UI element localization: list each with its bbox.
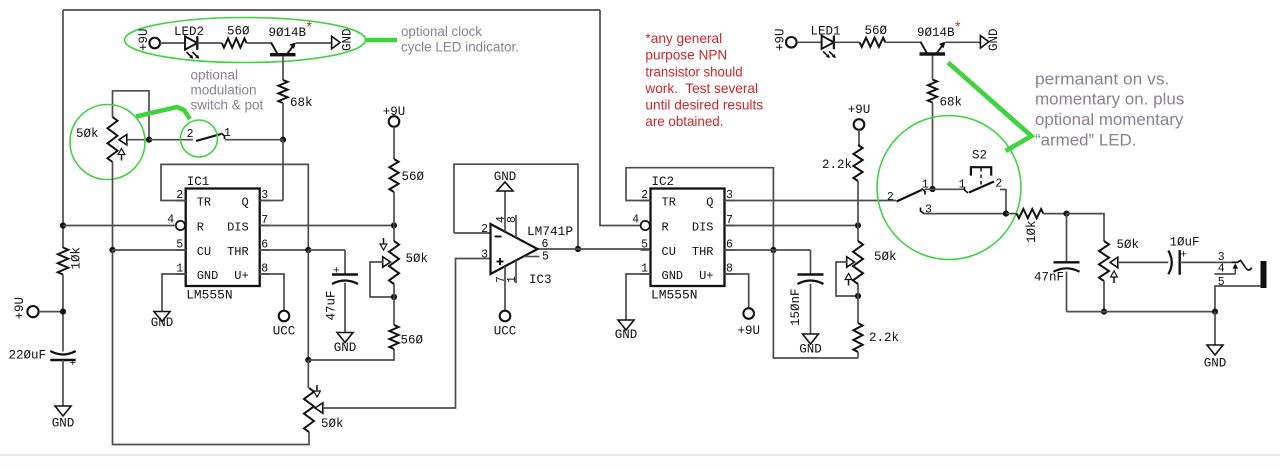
wire IC2 V+	[725, 274, 749, 308]
wire pot to 560 bottom	[393, 284, 395, 325]
wire bottom loop	[113, 250, 310, 445]
terminal +9v IC2	[737, 308, 760, 338]
svg-text:1: 1	[959, 179, 966, 192]
wire +9V tap	[39, 311, 63, 313]
svg-text:modulation: modulation	[191, 83, 257, 98]
svg-text:+: +	[333, 266, 340, 278]
wire IC1 TR loop	[161, 164, 308, 250]
svg-text:56Ø: 56Ø	[865, 24, 888, 38]
svg-text:Q: Q	[706, 196, 713, 210]
wire IC3 feedback box	[454, 164, 578, 249]
svg-text:U+: U+	[699, 269, 713, 283]
LED D1 LED1	[811, 25, 841, 59]
svg-text:+9U: +9U	[737, 324, 760, 338]
wire pot bottom	[1103, 281, 1105, 312]
svg-text:DIS: DIS	[692, 221, 714, 235]
svg-text:*any general: *any general	[645, 30, 722, 46]
LED D2 LED2	[174, 25, 204, 59]
svg-text:THR: THR	[227, 245, 249, 259]
svg-text:5: 5	[641, 239, 648, 252]
ground IC1	[151, 312, 174, 331]
wire node to pot top	[1067, 214, 1105, 241]
wire Q line to switch2	[895, 200, 898, 202]
svg-text:2.2k: 2.2k	[869, 331, 899, 345]
wire IC1 THR line	[260, 249, 309, 251]
jack J1 output	[1215, 251, 1267, 289]
wire DIS junction to pot	[393, 226, 395, 242]
wire 220uF to gnd	[62, 360, 64, 406]
transistor Q1 9014B	[917, 26, 955, 56]
junction +9V tap	[60, 309, 66, 315]
svg-text:+9U: +9U	[848, 103, 871, 117]
arrow pot output	[1111, 271, 1118, 283]
junction IC3 output	[575, 246, 581, 252]
svg-text:47nF: 47nF	[1034, 271, 1064, 285]
switch pin 3 contact	[921, 204, 933, 217]
wire LED2 to R560	[197, 42, 222, 44]
svg-text:9Ø14B: 9Ø14B	[917, 26, 955, 40]
svg-text:2: 2	[887, 191, 894, 204]
wire IC1 DIS line	[260, 225, 394, 227]
wire left rail mid	[62, 226, 64, 249]
arrow pot middle	[380, 238, 387, 250]
switch S1b momentary	[887, 179, 929, 205]
green circle pot annotation	[70, 105, 145, 180]
wire feedback wiper to IC3	[323, 259, 490, 409]
resistor R 10k left rail	[58, 247, 84, 275]
capacitor C 220uF	[8, 349, 76, 371]
wire middle pot wiper box	[370, 262, 394, 297]
svg-text:DIS: DIS	[227, 221, 249, 235]
ground 150nF	[799, 334, 822, 357]
terminal VCC IC1	[273, 311, 296, 339]
ground left rail	[52, 406, 75, 431]
svg-text:UCC: UCC	[273, 325, 296, 339]
svg-text:optional momentary: optional momentary	[1035, 111, 1184, 129]
svg-text:GND: GND	[52, 417, 75, 431]
red asterisk Q2	[307, 18, 313, 34]
green circle armed annotation	[877, 116, 1021, 260]
svg-text:GND: GND	[615, 328, 638, 342]
wire IC1 V+	[260, 274, 284, 311]
svg-text:68k: 68k	[940, 96, 963, 110]
wire IC3 output to IC2 CV	[538, 248, 651, 250]
wire pot bottom to CV	[112, 162, 114, 250]
svg-text:U+: U+	[234, 269, 248, 283]
wire to output gnd	[1214, 312, 1216, 345]
resistor 560 middle	[389, 159, 424, 192]
junction DIS 2.2k node	[855, 222, 861, 228]
wire IC3 pin2	[454, 232, 490, 234]
svg-text:1: 1	[506, 276, 519, 283]
green callout switch and pot	[136, 107, 190, 119]
svg-text:GND: GND	[494, 170, 517, 184]
ground IC2	[615, 320, 638, 342]
wire wiper to 10uF	[1118, 261, 1168, 263]
wire IC1 GND	[162, 274, 186, 312]
junction 560 bottom node	[305, 357, 311, 363]
terminal +9V middle	[383, 105, 406, 127]
svg-text:1Øk: 1Øk	[70, 247, 84, 270]
annotation optional clock cycle LED indicator	[401, 24, 519, 55]
svg-text:22ØuF: 22ØuF	[8, 349, 46, 363]
svg-text:GND: GND	[197, 269, 219, 283]
wire 47uF to gnd	[344, 283, 346, 333]
wire right pot wiper box	[836, 262, 858, 296]
resistor 560 LED2 chain	[222, 25, 250, 48]
svg-text:are obtained.: are obtained.	[645, 113, 723, 129]
resistor 2.2k lower	[853, 323, 899, 352]
svg-text:+9U: +9U	[383, 105, 406, 119]
wire 150nF to gnd	[810, 284, 812, 334]
terminal +9V LED2 chain	[137, 28, 160, 51]
svg-text:GND: GND	[987, 28, 1001, 51]
wire IC2 Q line	[725, 200, 896, 202]
svg-text:IC3: IC3	[529, 273, 552, 287]
wire THR to 150nF	[810, 250, 812, 275]
svg-text:2: 2	[481, 223, 488, 236]
wire 47nF to bottom	[1066, 272, 1068, 312]
wire LED1 to R560	[834, 41, 860, 43]
svg-text:*: *	[307, 18, 313, 34]
potentiometer 50k middle	[383, 241, 428, 284]
junction output pot bottom	[1101, 309, 1107, 315]
junction wiper node	[146, 137, 152, 143]
ground 47uF	[334, 333, 357, 356]
wire 68k to switch	[932, 103, 934, 190]
red asterisk Q1	[955, 18, 961, 34]
wire R560 to Q1	[885, 41, 920, 43]
svg-text:*: *	[955, 18, 961, 34]
resistor 68k right	[928, 80, 962, 110]
svg-text:switch & pot: switch & pot	[191, 98, 264, 113]
svg-text:5: 5	[1218, 276, 1225, 289]
wire to feedback pot	[307, 360, 309, 388]
wire 2.2k lower to loop	[857, 352, 859, 358]
svg-text:3: 3	[261, 189, 268, 202]
svg-text:5Øk: 5Øk	[1117, 238, 1140, 252]
arrow pot feedback	[314, 385, 321, 397]
svg-text:optional clock: optional clock	[401, 24, 482, 39]
wire switch junction to S2	[925, 188, 965, 190]
green callout clock LED	[366, 38, 398, 43]
wire switch to 68k junction	[225, 139, 283, 141]
wire Q2 emitter to gnd	[296, 42, 332, 44]
svg-text:CU: CU	[662, 245, 676, 259]
svg-text:9Ø14B: 9Ø14B	[269, 26, 307, 40]
svg-text:3: 3	[925, 204, 932, 217]
wire Q1 base to 68k	[932, 56, 934, 80]
svg-text:work. Test several: work. Test several	[644, 80, 758, 96]
svg-text:+9U: +9U	[773, 28, 787, 51]
wire S2 pin2 down	[1000, 190, 1006, 214]
svg-text:THR: THR	[692, 245, 714, 259]
svg-text:CU: CU	[197, 245, 211, 259]
svg-text:LM741P: LM741P	[527, 225, 573, 239]
svg-text:5Øk: 5Øk	[874, 250, 897, 264]
green callout armed LED	[948, 63, 1031, 152]
wire top rail to IC2 R	[600, 10, 641, 226]
junction switch armed node	[929, 186, 935, 192]
wire S2 node to 10k	[1006, 213, 1017, 215]
svg-text:momentary on. plus: momentary on. plus	[1035, 91, 1184, 109]
ground output	[1204, 345, 1227, 371]
potentiometer 50k modulation	[76, 117, 127, 162]
junction switch node	[280, 137, 286, 143]
wire IC2 TR loop down	[773, 250, 858, 358]
svg-text:until desired results: until desired results	[645, 97, 763, 113]
wire top rail	[63, 9, 600, 11]
svg-text:R: R	[197, 221, 204, 235]
annotation permanant on vs momentary	[1035, 71, 1184, 150]
svg-text:TR: TR	[197, 196, 211, 210]
annotation red NPN note	[644, 30, 763, 129]
svg-text:optional: optional	[191, 68, 239, 83]
svg-text:GND: GND	[662, 269, 684, 283]
wire 2.2k to DIS junction	[857, 181, 859, 226]
wire wiper to junction	[127, 139, 149, 141]
svg-text:4: 4	[632, 214, 639, 227]
IC U1 LM555N IC1	[167, 175, 269, 303]
svg-text:2.2k: 2.2k	[822, 158, 852, 172]
green ellipse clock LED indicator	[125, 18, 366, 63]
junction right pot bottom	[855, 293, 861, 299]
svg-text:8: 8	[506, 216, 519, 223]
green circle switch annotation	[181, 120, 218, 157]
svg-text:+: +	[1180, 250, 1187, 262]
svg-text:Q: Q	[241, 196, 248, 210]
svg-text:1ØuF: 1ØuF	[1170, 236, 1200, 250]
svg-text:6: 6	[542, 238, 549, 251]
wire junction to Q pin	[260, 140, 284, 201]
capacitor C 150nF	[789, 275, 824, 327]
wire IC2 TR loop	[626, 168, 773, 250]
resistor 560 bottom middle	[389, 325, 423, 349]
svg-text:“armed” LED.: “armed” LED.	[1035, 131, 1136, 149]
wire jack sleeve	[1215, 286, 1261, 312]
wire 10k to 47nF node	[1043, 213, 1066, 215]
svg-text:GND: GND	[334, 341, 357, 355]
wire left rail upper	[62, 10, 64, 226]
svg-text:TR: TR	[662, 196, 676, 210]
annotation optional modulation switch and pot	[191, 68, 264, 113]
photo bottom edge	[0, 455, 1280, 469]
svg-text:56Ø: 56Ø	[401, 334, 424, 348]
junction S2 output node	[1003, 211, 1009, 217]
wire +9V to LED2	[160, 42, 185, 44]
svg-text:permanant on vs.: permanant on vs.	[1035, 71, 1169, 89]
svg-text:1Øk: 1Øk	[1025, 220, 1039, 243]
svg-text:5: 5	[542, 251, 549, 264]
svg-text:2: 2	[995, 178, 1002, 191]
op-amp U3 IC3 LM741P	[481, 191, 573, 311]
wire IC1 R line	[63, 225, 176, 227]
wire IC2 DIS line	[725, 225, 859, 227]
svg-text:IC2: IC2	[652, 175, 675, 189]
svg-text:S2: S2	[972, 149, 987, 163]
capacitor C 47nF	[1034, 262, 1080, 284]
wire left rail lower	[62, 275, 64, 352]
wire junction to switch	[149, 139, 193, 141]
svg-text:+9U: +9U	[137, 28, 151, 51]
wire IC2 THR line	[725, 249, 811, 251]
svg-text:+: +	[70, 358, 77, 370]
svg-text:GND: GND	[1204, 357, 1227, 371]
svg-text:56Ø: 56Ø	[227, 25, 250, 39]
svg-text:1: 1	[224, 127, 231, 140]
svg-text:2: 2	[187, 128, 194, 141]
arrow pot modulation	[118, 149, 125, 161]
wire +9v to 2.2k	[858, 130, 860, 145]
svg-text:5Øk: 5Øk	[406, 252, 429, 266]
svg-text:4: 4	[167, 214, 174, 227]
wire Q2 base to 68k	[282, 56, 284, 80]
junction IC2 THR node	[770, 247, 776, 253]
svg-text:GND: GND	[341, 28, 355, 51]
resistor 560 LED1 chain	[860, 24, 888, 47]
svg-text:3: 3	[481, 249, 488, 262]
junction 47nF node	[1063, 211, 1069, 217]
junction middle pot bottom	[391, 294, 397, 300]
svg-text:LM555N: LM555N	[651, 288, 698, 303]
junction left rail R line	[60, 222, 66, 228]
capacitor C 47uF	[325, 266, 359, 321]
svg-text:15ØnF: 15ØnF	[789, 288, 803, 326]
svg-text:GND: GND	[151, 316, 174, 330]
wire R560 to Q2	[247, 42, 272, 44]
svg-text:5Øk: 5Øk	[76, 127, 99, 141]
potentiometer 50k output	[1099, 238, 1139, 281]
wire DIS junction to pot	[857, 226, 859, 242]
wire +9V to LED1	[797, 41, 822, 43]
junction gnd node	[1212, 309, 1218, 315]
wire 560 to DIS junction	[393, 192, 395, 226]
svg-text:56Ø: 56Ø	[402, 170, 425, 184]
wire 68k to switch junction	[282, 103, 284, 140]
junction THR node	[305, 247, 311, 253]
wire pot to 2.2k lower	[857, 284, 859, 323]
capacitor C 10uF	[1168, 236, 1199, 275]
svg-text:purpose NPN: purpose NPN	[645, 47, 727, 63]
svg-text:68k: 68k	[290, 96, 313, 110]
wire pin3 to output node	[924, 213, 1006, 215]
resistor 68k left	[278, 80, 312, 110]
wire Q1 emitter to gnd	[946, 41, 981, 43]
terminal VCC IC3	[494, 311, 517, 339]
svg-text:transistor should: transistor should	[645, 63, 742, 79]
svg-text:IC1: IC1	[187, 175, 210, 189]
switch S2	[959, 149, 1003, 194]
resistor 2.2k upper	[822, 145, 863, 181]
terminal +9v right	[848, 103, 871, 130]
terminal +9V LED1 chain	[773, 28, 796, 51]
wire node to 47nF	[1066, 214, 1068, 263]
svg-text:R: R	[662, 221, 669, 235]
svg-text:UCC: UCC	[494, 325, 517, 339]
svg-text:LED2: LED2	[174, 25, 204, 39]
svg-text:5Øk: 5Øk	[321, 417, 344, 431]
wire IC2 GND	[626, 274, 651, 320]
resistor 10k output	[1017, 209, 1044, 243]
svg-text:GND: GND	[799, 343, 822, 357]
arrow pot right	[845, 274, 852, 286]
potentiometer 50k feedback	[304, 388, 344, 432]
wire 10uF to jack	[1180, 261, 1232, 263]
junction DIS middle column	[391, 222, 397, 228]
IC U2 LM555N IC2	[632, 175, 734, 303]
switch S1 modulation	[187, 127, 231, 141]
terminal +9V left	[13, 297, 39, 320]
potentiometer 50k right	[847, 241, 897, 284]
svg-text:LM555N: LM555N	[186, 288, 233, 303]
svg-text:LED1: LED1	[811, 25, 841, 39]
wire pot top box	[113, 91, 150, 140]
wire THR vertical	[307, 250, 309, 360]
wire bottom right	[1067, 311, 1216, 313]
junction CV node	[109, 247, 115, 253]
wire 560 bottom elbow	[308, 349, 394, 360]
svg-text:cycle LED indicator.: cycle LED indicator.	[401, 40, 519, 55]
wire THR to cap 47uF	[344, 250, 346, 275]
wire IC1 CV line	[113, 249, 186, 251]
wire THR to 47uF	[308, 249, 345, 251]
ground IC3	[494, 170, 517, 191]
svg-text:47uF: 47uF	[325, 290, 339, 320]
ground LED2 chain	[332, 28, 355, 51]
wire +9V to 560	[393, 127, 395, 159]
ground LED1 chain	[980, 28, 1001, 51]
svg-text:+9U: +9U	[13, 297, 27, 320]
transistor Q2 9014B	[269, 26, 307, 56]
